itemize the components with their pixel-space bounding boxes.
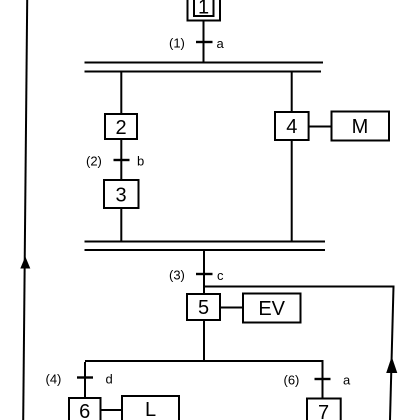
- transition (4) tick: [77, 376, 93, 378]
- wire step1 to parallel bar: [203, 21, 205, 64]
- svg-text:d: d: [106, 372, 113, 387]
- wire step2 to step3: [120, 139, 122, 180]
- step 1 (initial step, double box, cut at top): [188, 0, 221, 21]
- svg-text:7: 7: [318, 402, 329, 420]
- svg-text:c: c: [217, 268, 224, 283]
- step 7 (cut at bottom): [307, 399, 341, 420]
- wire step3 to join bar: [120, 208, 122, 242]
- wire step4 to join bar: [291, 140, 293, 242]
- parallel convergence double bar: [85, 241, 326, 252]
- wire step5 to OR divergence: [203, 320, 205, 361]
- transition (2) tick: [114, 159, 130, 161]
- svg-text:(6): (6): [284, 373, 300, 388]
- svg-text:EV: EV: [258, 298, 285, 320]
- svg-text:3: 3: [115, 185, 126, 207]
- svg-text:L: L: [145, 399, 156, 420]
- wire OR line to step 6: [84, 362, 86, 398]
- step 5: [187, 294, 220, 320]
- OR divergence line: [85, 360, 324, 362]
- parallel divergence double bar: [85, 62, 324, 73]
- transition (6) tick: [315, 378, 331, 380]
- step 4: [275, 112, 309, 140]
- wire left return loop: [23, 0, 27, 420]
- wire right return vertical: [390, 287, 394, 420]
- wire bar to step 2: [120, 73, 122, 115]
- svg-text:(4): (4): [46, 372, 62, 387]
- step 6 (cut at bottom): [69, 398, 101, 420]
- wire join bar to step 5: [203, 251, 205, 294]
- svg-text:6: 6: [79, 401, 90, 420]
- step 3: [104, 180, 139, 208]
- wire step4 to action M: [309, 126, 332, 128]
- step 2: [105, 114, 137, 139]
- svg-text:2: 2: [115, 117, 126, 139]
- svg-text:(3): (3): [169, 268, 185, 283]
- wire return from transition (6) to node above step 5: [204, 286, 395, 288]
- svg-text:5: 5: [198, 297, 209, 319]
- svg-text:(2): (2): [86, 154, 102, 169]
- svg-text:1: 1: [198, 0, 209, 19]
- svg-text:a: a: [217, 36, 225, 51]
- svg-text:a: a: [343, 373, 351, 388]
- transition (3) tick: [196, 273, 213, 275]
- transition (1) tick: [196, 41, 213, 43]
- svg-text:M: M: [352, 116, 369, 138]
- arrow up on right return wire: [386, 357, 397, 374]
- wire step6 to action L: [101, 409, 123, 411]
- wire step5 to action EV: [220, 307, 243, 309]
- action EV box: [243, 294, 301, 323]
- action M box: [332, 112, 390, 141]
- wire bar to step 4: [291, 73, 293, 113]
- svg-text:4: 4: [286, 116, 297, 138]
- svg-text:(1): (1): [169, 36, 185, 51]
- arrow up on left return wire: [20, 257, 30, 269]
- svg-text:b: b: [137, 154, 144, 169]
- wire OR line to step 7: [322, 362, 324, 399]
- action L box (cut at bottom): [122, 396, 179, 420]
